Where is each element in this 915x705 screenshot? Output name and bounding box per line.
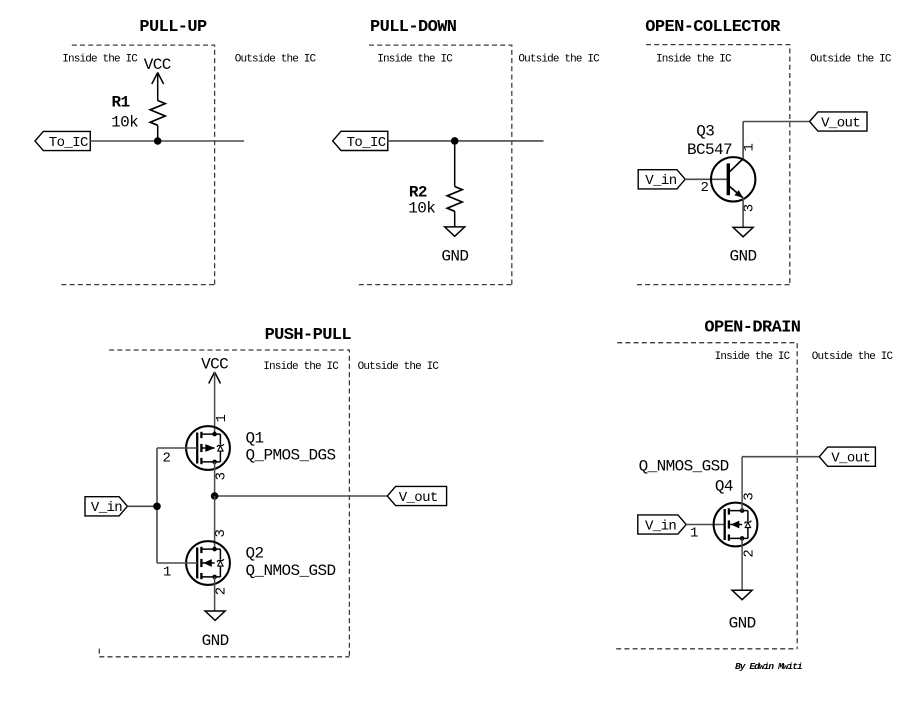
- wire V_in to gate node: [127, 505, 157, 507]
- wire V_in to base Q3: [685, 178, 728, 180]
- svg-text:Inside the IC: Inside the IC: [263, 361, 339, 373]
- svg-text:R1: R1: [112, 94, 130, 112]
- svg-text:Q_NMOS_GSD: Q_NMOS_GSD: [246, 562, 336, 580]
- pin 3 label (Q3 emitter): [741, 204, 757, 212]
- section title PULL-DOWN: [370, 18, 457, 37]
- wire To_IC output (pull-up): [90, 140, 244, 142]
- wire VCC to R1: [157, 73, 159, 101]
- svg-text:V_in: V_in: [645, 173, 676, 189]
- wire V_in to Q4 gate: [686, 524, 725, 526]
- section title PUSH-PULL: [265, 326, 352, 345]
- svg-text:1: 1: [690, 526, 698, 542]
- pin 2 label (Q2 source): [213, 587, 229, 595]
- wire To_IC output (pull-down): [388, 140, 544, 142]
- svg-text:Inside the IC: Inside the IC: [656, 53, 732, 65]
- label Outside the IC (pull-down): [518, 53, 600, 65]
- label Outside the IC (push-pull): [358, 361, 440, 373]
- value 10k (R2): [408, 200, 435, 218]
- label GND (pull-down): [441, 248, 468, 266]
- svg-text:Inside the IC: Inside the IC: [62, 53, 138, 65]
- net label To_IC (pull-up): [35, 131, 90, 151]
- transistor Q2: [186, 541, 230, 585]
- svg-text:2: 2: [163, 451, 171, 467]
- wire output node to V_out: [215, 495, 388, 497]
- svg-text:Q_NMOS_GSD: Q_NMOS_GSD: [639, 457, 729, 475]
- wire to Q1 gate: [157, 447, 197, 449]
- power VCC (pull-up): [144, 56, 171, 84]
- power VCC (push-pull): [201, 356, 228, 384]
- wire VCC to Q1 drain: [214, 372, 216, 434]
- node output junction (push-pull): [211, 492, 219, 500]
- wire node to R2: [454, 141, 456, 187]
- svg-text:VCC: VCC: [144, 56, 171, 74]
- wire Q4 source to ground: [741, 538, 743, 590]
- wire collector to V_out: [743, 122, 810, 159]
- svg-text:Outside the IC: Outside the IC: [235, 53, 317, 65]
- signature By Edwin Mwiti: [735, 661, 802, 672]
- svg-text:VCC: VCC: [201, 356, 228, 374]
- svg-text:GND: GND: [729, 248, 756, 266]
- pin 3 label (Q4 drain): [742, 492, 758, 500]
- transistor Q4: [714, 503, 758, 547]
- net label V_out (open-drain): [819, 447, 875, 467]
- resistor R2: [447, 187, 462, 212]
- label GND (open-collector): [729, 248, 756, 266]
- label Inside the IC (pull-down): [377, 53, 453, 65]
- svg-text:GND: GND: [729, 615, 756, 633]
- label GND (push-pull): [202, 632, 229, 650]
- pin 2 label (Q4 source): [742, 549, 758, 557]
- open-drain IC boundary dashed box: [616, 343, 797, 649]
- net label V_out (open-collector): [810, 112, 867, 131]
- net label V_in (open-drain): [638, 515, 686, 535]
- svg-text:1: 1: [163, 565, 171, 581]
- svg-text:By Edwin Mwiti: By Edwin Mwiti: [735, 661, 802, 672]
- ground symbol (pull-down): [445, 227, 465, 236]
- label Q2: [246, 545, 264, 563]
- label Q4: [715, 478, 733, 496]
- net label V_in (open-collector): [638, 170, 685, 190]
- section title OPEN-COLLECTOR: [645, 18, 781, 37]
- wire emitter to ground: [742, 198, 744, 228]
- label Outside the IC (open-collector): [810, 53, 892, 65]
- svg-text:V_out: V_out: [399, 490, 438, 506]
- svg-text:Q2: Q2: [246, 545, 264, 563]
- ground symbol (open-drain): [732, 590, 752, 599]
- wire R2 to ground: [454, 211, 456, 227]
- label R2: [409, 183, 427, 201]
- svg-text:R2: R2: [409, 183, 427, 201]
- label Outside the IC (pull-up): [235, 53, 317, 65]
- pin 1 label (Q4 gate): [690, 526, 698, 542]
- pin 3 label (Q1 source): [214, 472, 230, 480]
- value Q_NMOS_GSD (Q4): [639, 457, 729, 475]
- svg-text:Outside the IC: Outside the IC: [518, 53, 600, 65]
- transistor Q1: [186, 426, 230, 470]
- wire to Q2 gate: [157, 562, 197, 564]
- wire Q4 drain to V_out: [742, 457, 819, 511]
- svg-text:Outside the IC: Outside the IC: [810, 53, 892, 65]
- net label V_out (push-pull): [387, 486, 446, 506]
- svg-text:GND: GND: [202, 632, 229, 650]
- svg-text:To_IC: To_IC: [347, 135, 386, 151]
- wire gate bus vertical: [156, 448, 158, 563]
- pull-down IC boundary dashed box: [359, 45, 512, 285]
- svg-text:2: 2: [213, 587, 229, 595]
- svg-text:V_out: V_out: [831, 451, 870, 467]
- label Inside the IC (pull-up): [62, 53, 138, 65]
- net label V_in (push-pull): [85, 497, 127, 517]
- pin 3 label (Q2 drain): [213, 529, 229, 537]
- svg-text:PULL-UP: PULL-UP: [139, 18, 207, 37]
- svg-text:Q1: Q1: [246, 430, 264, 448]
- value Q_NMOS_GSD (Q2): [246, 562, 336, 580]
- node junction (pull-down): [451, 137, 459, 145]
- svg-text:10k: 10k: [408, 200, 435, 218]
- net label To_IC (pull-down): [333, 131, 388, 151]
- svg-text:Q_PMOS_DGS: Q_PMOS_DGS: [246, 446, 336, 464]
- label Q3: [696, 123, 714, 141]
- svg-text:PUSH-PULL: PUSH-PULL: [265, 326, 352, 345]
- push-pull IC boundary dashed box: [99, 350, 349, 657]
- svg-text:2: 2: [742, 549, 758, 557]
- label Inside the IC (open-collector): [656, 53, 732, 65]
- label Inside the IC (open-drain): [715, 351, 791, 363]
- ground symbol (open-collector): [733, 227, 753, 236]
- open-collector IC boundary dashed box: [637, 45, 790, 285]
- svg-text:Inside the IC: Inside the IC: [377, 53, 453, 65]
- wire output node to Q2 drain: [214, 496, 216, 549]
- svg-text:Outside the IC: Outside the IC: [358, 361, 440, 373]
- pin 1 label (Q2 gate): [163, 565, 171, 581]
- svg-text:V_out: V_out: [821, 115, 860, 131]
- svg-text:GND: GND: [441, 248, 468, 266]
- wire Q1 source to output node: [214, 462, 216, 496]
- pin 1 label (Q1 drain): [214, 414, 230, 422]
- label GND (open-drain): [729, 615, 756, 633]
- section title PULL-UP: [139, 18, 207, 37]
- svg-text:V_in: V_in: [645, 518, 676, 534]
- pin 2 label (Q3 base): [701, 180, 709, 196]
- value Q_PMOS_DGS (Q1): [246, 446, 336, 464]
- svg-text:Q3: Q3: [696, 123, 714, 141]
- label Q1: [246, 430, 264, 448]
- node gate junction (push-pull): [153, 503, 161, 511]
- section title OPEN-DRAIN: [704, 319, 800, 338]
- value 10k (R1): [111, 113, 138, 131]
- label Inside the IC (push-pull): [263, 361, 339, 373]
- resistor R1: [150, 101, 165, 126]
- svg-text:OPEN-DRAIN: OPEN-DRAIN: [704, 319, 800, 338]
- ground symbol (push-pull): [205, 611, 225, 620]
- svg-text:10k: 10k: [111, 113, 138, 131]
- svg-text:3: 3: [213, 529, 229, 537]
- pin 2 label (Q1 gate): [163, 451, 171, 467]
- transistor Q3: [711, 157, 755, 201]
- svg-text:Inside the IC: Inside the IC: [715, 351, 791, 363]
- svg-text:Outside the IC: Outside the IC: [812, 351, 894, 363]
- label Outside the IC (open-drain): [812, 351, 894, 363]
- svg-text:V_in: V_in: [91, 500, 122, 516]
- label R1: [112, 94, 130, 112]
- svg-text:2: 2: [701, 180, 709, 196]
- value BC547 (Q3): [687, 141, 732, 159]
- svg-text:3: 3: [742, 492, 758, 500]
- svg-text:OPEN-COLLECTOR: OPEN-COLLECTOR: [645, 18, 781, 37]
- svg-text:Q4: Q4: [715, 478, 733, 496]
- pull-up IC boundary dashed box: [61, 45, 214, 285]
- wire Q2 source to ground: [214, 577, 216, 611]
- pin 1 label (Q3 collector): [741, 143, 757, 151]
- node junction (pull-up): [154, 137, 162, 145]
- wire R1 to node: [157, 125, 159, 141]
- svg-text:PULL-DOWN: PULL-DOWN: [370, 18, 457, 37]
- svg-text:1: 1: [214, 414, 230, 422]
- svg-text:BC547: BC547: [687, 141, 732, 159]
- svg-text:3: 3: [214, 472, 230, 480]
- svg-text:To_IC: To_IC: [49, 135, 88, 151]
